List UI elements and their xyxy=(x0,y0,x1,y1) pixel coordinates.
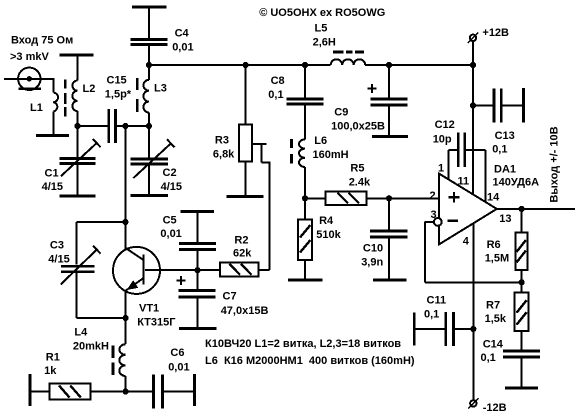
svg-text:4: 4 xyxy=(463,235,470,247)
svg-text:4/15: 4/15 xyxy=(48,253,69,265)
ground left of C11 xyxy=(413,313,416,346)
wire to op-amp pin 2 xyxy=(389,197,439,199)
wire R3 tap to R2 xyxy=(252,144,269,270)
svg-text:3: 3 xyxy=(431,209,437,221)
inductor L3 xyxy=(143,65,166,126)
capacitor C2 (variable 4/15) xyxy=(131,126,183,194)
svg-text:DA1: DA1 xyxy=(494,164,516,176)
svg-text:1k: 1k xyxy=(44,365,57,377)
svg-text:R5: R5 xyxy=(350,162,364,174)
ground under R4 xyxy=(288,279,323,282)
svg-text:L5: L5 xyxy=(315,23,328,35)
terminal -12V xyxy=(468,398,506,414)
svg-text:VT1: VT1 xyxy=(139,303,159,315)
svg-text:C3: C3 xyxy=(50,239,64,251)
svg-text:C4: C4 xyxy=(175,28,190,40)
wire C3 top branch xyxy=(77,222,126,265)
ground under C9 xyxy=(372,135,408,138)
svg-text:R7: R7 xyxy=(486,299,500,311)
transformer core L1/L2 xyxy=(64,80,67,117)
ground under C10 xyxy=(373,279,406,282)
resistor R5 xyxy=(305,162,389,205)
node emitter/C3 xyxy=(123,315,129,321)
svg-text:L3: L3 xyxy=(154,83,167,95)
ground right of C13 xyxy=(522,88,525,123)
pin 14 lead xyxy=(486,150,500,204)
capacitor C15 xyxy=(105,75,132,144)
node R5/C10/pin2 xyxy=(386,195,392,201)
svg-text:R4: R4 xyxy=(319,215,334,227)
svg-text:4/15: 4/15 xyxy=(161,181,182,193)
wire feedback to pin 3 xyxy=(425,222,522,283)
resistor R6 xyxy=(485,209,528,282)
wire C15 to L3 bottom xyxy=(117,125,150,127)
node base/C5/C7/R2 xyxy=(194,267,200,273)
ground right of C6 xyxy=(193,374,196,406)
svg-text:13: 13 xyxy=(499,213,511,225)
svg-text:-12В: -12В xyxy=(483,402,507,414)
node R3 top xyxy=(243,62,249,68)
svg-text:+12В: +12В xyxy=(482,27,509,39)
svg-text:6,8k: 6,8k xyxy=(213,148,235,160)
svg-text:C13: C13 xyxy=(495,130,515,142)
svg-text:C12: C12 xyxy=(435,119,455,131)
resistor R1 xyxy=(30,351,126,399)
capacitor C1 (variable 4/15) xyxy=(42,126,101,195)
node C3 top xyxy=(122,219,128,225)
svg-text:C14: C14 xyxy=(483,339,504,351)
svg-text:L2: L2 xyxy=(83,83,96,95)
inductor L2 xyxy=(72,55,95,126)
svg-text:2,6Н: 2,6Н xyxy=(313,36,336,48)
ground under C2 xyxy=(131,194,169,197)
ground under L1 xyxy=(36,134,69,137)
node collector column top xyxy=(122,123,128,129)
resistor R3 xyxy=(213,65,252,195)
svg-text:2.4k: 2.4k xyxy=(349,177,371,189)
node output xyxy=(519,206,525,212)
wire input to L1 xyxy=(52,78,54,93)
svg-text:0,1: 0,1 xyxy=(424,309,439,321)
node C8 top xyxy=(302,62,308,68)
node C11 tap xyxy=(470,326,476,332)
svg-text:47,0x15В: 47,0x15В xyxy=(221,305,269,317)
node L3/C2 xyxy=(146,123,152,129)
svg-text:C8: C8 xyxy=(271,75,285,87)
svg-text:C9: C9 xyxy=(334,107,348,119)
capacitor C8 xyxy=(268,65,323,139)
wire +12V rail right segment xyxy=(365,64,473,66)
wire collector column xyxy=(124,126,126,222)
capacitor C9 (electrolytic) xyxy=(331,65,407,135)
svg-text:L6: L6 xyxy=(314,135,327,147)
node emitter bottom rail xyxy=(123,388,129,394)
svg-text:© UO5OHX ex RO5OWG: © UO5OHX ex RO5OWG xyxy=(259,7,385,19)
svg-text:C6: C6 xyxy=(170,347,184,359)
core L5 xyxy=(333,51,364,54)
wire tank node to C15 xyxy=(78,125,108,127)
svg-text:C1: C1 xyxy=(45,168,59,180)
ground connector shell xyxy=(18,87,41,90)
wire +12V rail left segment xyxy=(149,64,331,66)
svg-text:C5: C5 xyxy=(163,215,177,227)
svg-text:14: 14 xyxy=(487,192,500,204)
svg-text:1,5М: 1,5М xyxy=(485,253,509,265)
svg-text:C15: C15 xyxy=(107,75,127,87)
pin 13 output lead xyxy=(497,209,575,225)
svg-text:R1: R1 xyxy=(46,351,60,363)
svg-text:0,1: 0,1 xyxy=(268,89,283,101)
resistor R2 xyxy=(198,235,259,277)
core L6 xyxy=(290,139,293,164)
pin 3 (inverting, with inversion circle) xyxy=(431,209,442,226)
svg-text:R3: R3 xyxy=(215,135,229,147)
svg-text:1,5k: 1,5k xyxy=(485,313,507,325)
svg-text:Выход +/- 10В: Выход +/- 10В xyxy=(548,126,560,202)
svg-text:0,1: 0,1 xyxy=(481,352,496,364)
ground above C4 xyxy=(132,6,167,9)
inductor L5 xyxy=(313,23,366,66)
svg-text:3,9n: 3,9n xyxy=(361,257,383,269)
svg-text:C7: C7 xyxy=(223,291,237,303)
svg-text:140УД6А: 140УД6А xyxy=(493,177,540,189)
node tank input xyxy=(74,123,80,129)
pin 11 lead xyxy=(458,150,474,195)
svg-text:C11: C11 xyxy=(427,295,447,307)
capacitor C4 xyxy=(131,7,194,65)
ground under C1 xyxy=(60,195,96,198)
svg-text:510k: 510k xyxy=(316,229,341,241)
input connector XW1 xyxy=(4,68,53,90)
svg-text:20mkH: 20mkH xyxy=(73,340,109,352)
node feedback xyxy=(519,279,525,285)
node L6/R5/R4 xyxy=(302,195,308,201)
ground left of R1 xyxy=(29,374,32,406)
svg-text:0,01: 0,01 xyxy=(172,41,193,53)
svg-text:L1: L1 xyxy=(30,102,43,114)
op-amp DA1 xyxy=(439,174,497,245)
pin 1 lead xyxy=(438,150,449,180)
svg-text:R6: R6 xyxy=(487,239,501,251)
svg-text:C10: C10 xyxy=(363,242,383,254)
capacitor C10 xyxy=(361,198,407,279)
svg-text:C2: C2 xyxy=(163,167,177,179)
svg-text:0,01: 0,01 xyxy=(160,228,181,240)
svg-text:0,1: 0,1 xyxy=(492,144,507,156)
core L4 xyxy=(112,346,115,375)
svg-text:2: 2 xyxy=(430,190,436,202)
ground above C5 xyxy=(181,210,214,213)
resistor R7 xyxy=(485,282,529,350)
svg-text:R2: R2 xyxy=(234,235,248,247)
svg-text:62k: 62k xyxy=(233,247,252,259)
ground under C14 xyxy=(505,387,538,390)
resistor R4 xyxy=(298,198,342,279)
ground under C7 xyxy=(179,327,217,330)
node C13 tap xyxy=(470,102,476,108)
inductor L6 xyxy=(299,135,349,198)
svg-text:Вход 75 Ом: Вход 75 Ом xyxy=(11,35,73,47)
label input annotation xyxy=(10,35,73,64)
capacitor C13 xyxy=(473,89,523,156)
svg-text:160mH: 160mH xyxy=(313,149,349,161)
ground above L2 xyxy=(60,54,94,57)
svg-text:10p: 10p xyxy=(433,133,452,145)
svg-text:0,01: 0,01 xyxy=(168,361,189,373)
capacitor C6 xyxy=(126,347,193,409)
svg-text:>3 mkV: >3 mkV xyxy=(10,51,49,63)
svg-text:К10ВЧ20 L1=2 витка, L2,3=18 ви: К10ВЧ20 L1=2 витка, L2,3=18 витков xyxy=(205,338,401,350)
svg-text:100,0x25В: 100,0x25В xyxy=(331,120,385,132)
inductor L4 xyxy=(73,318,126,392)
terminal +12V xyxy=(468,27,509,43)
transistor VT1 xyxy=(113,222,198,328)
node C9 top xyxy=(386,62,392,68)
ground under R3 xyxy=(227,195,264,198)
wire C3 bottom branch xyxy=(77,273,126,318)
inductor L1 xyxy=(30,93,58,135)
label DA1 xyxy=(493,164,540,189)
capacitor C3 (variable 4/15) xyxy=(48,239,100,284)
capacitor C12 xyxy=(433,119,486,167)
svg-text:L6 К16 М2000НМ1 400 витков (: L6 К16 М2000НМ1 400 витков (160mH) xyxy=(205,355,415,367)
node +12V rail xyxy=(470,62,476,68)
wire +12V supply column xyxy=(472,41,474,150)
core L3 xyxy=(136,78,139,112)
svg-text:4/15: 4/15 xyxy=(42,181,63,193)
svg-text:1,5p*: 1,5p* xyxy=(105,89,132,101)
svg-text:КТ315Г: КТ315Г xyxy=(137,316,176,328)
pin 4 lead xyxy=(463,224,474,400)
capacitor C5 xyxy=(160,212,216,271)
capacitor C11 xyxy=(415,295,473,346)
svg-text:L4: L4 xyxy=(74,327,88,339)
capacitor C7 (electrolytic) xyxy=(177,270,269,327)
node rail/C4/L3 xyxy=(146,62,152,68)
capacitor C14 xyxy=(481,339,541,387)
